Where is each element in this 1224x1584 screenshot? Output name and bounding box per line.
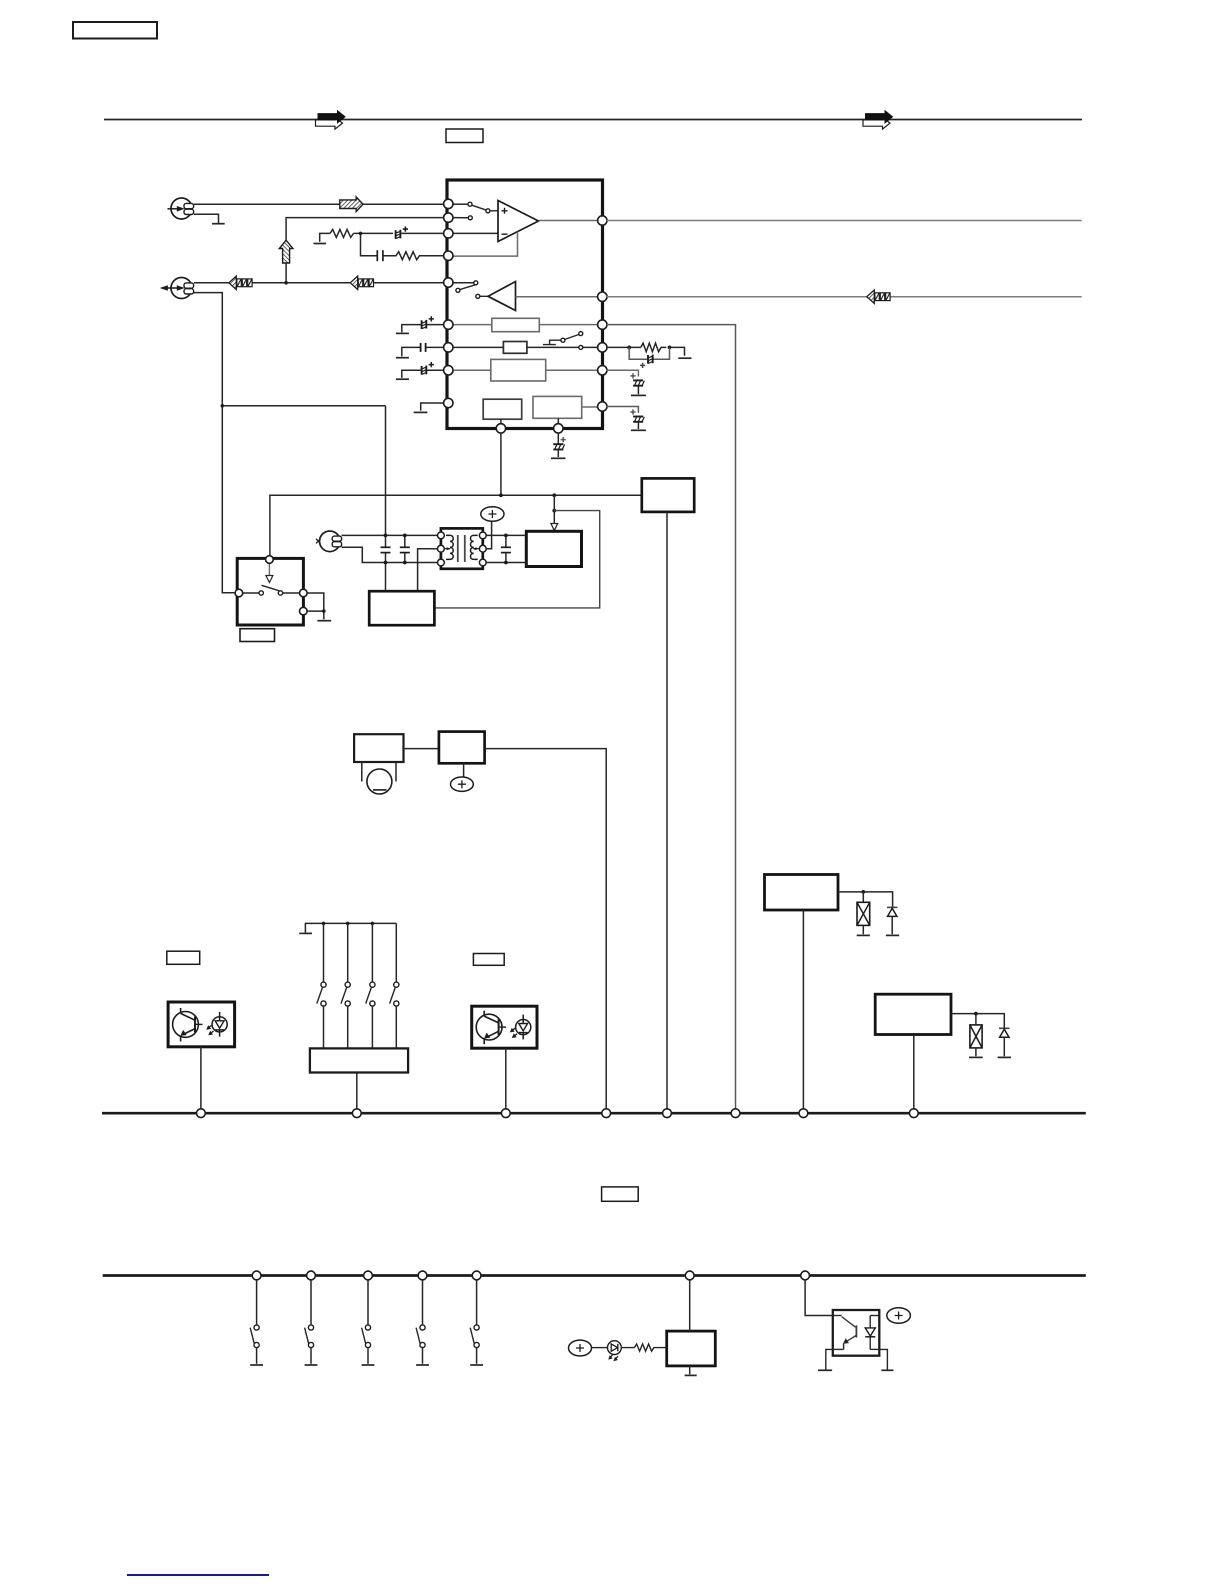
oscillator block OSC1 (369, 591, 434, 625)
wire branch to filter caps vertical (222, 405, 385, 407)
junction node SW1 ground (322, 609, 326, 613)
switch SW-b monitor select (452, 281, 488, 299)
connector J1 (168, 198, 194, 219)
title block box (73, 22, 157, 39)
wire supply rail horizontal (270, 495, 642, 557)
wire B5 to right pin (582, 406, 598, 408)
junction node RY1 (861, 890, 865, 894)
ground stub R-in (320, 233, 330, 241)
power switch box SW1 (237, 558, 303, 625)
wire bus2 to optocoupler (805, 1280, 833, 1316)
capacitor C9 smoothing (501, 535, 511, 562)
junction node rail at regulator (552, 493, 556, 497)
wire rail down to regulator arrow (553, 495, 555, 524)
optocoupler PC1 (833, 1310, 880, 1356)
wire pin row 403 to ground stub (421, 403, 448, 411)
wire line-out to right edge (607, 220, 1082, 222)
sense switch SS5 (470, 1280, 483, 1365)
IC pin circles bottom (496, 424, 563, 433)
capacitor C8 line filter (400, 535, 410, 562)
block filter F1 (492, 318, 540, 331)
wire transformer secondary top to PS1 (486, 534, 526, 536)
hatched flow arrow right on J1 line (340, 197, 363, 212)
junction nodes C7 (384, 534, 388, 565)
ground bar J1 (212, 223, 225, 225)
block B4 (483, 399, 522, 419)
ground bar RY3 (685, 1374, 697, 1376)
block B5 (533, 396, 582, 418)
junction node R3 right (668, 346, 672, 350)
key switch K2 (341, 923, 350, 1048)
capacitor C12 polarized pin 370 (396, 362, 444, 379)
wire RY1 down to bus (802, 910, 804, 1112)
wire plug neutral to transformer (342, 547, 439, 562)
capacitor C6 polarized to ground (551, 437, 566, 458)
ground bus 1 (102, 1112, 1086, 1115)
block AMP2 (439, 732, 485, 764)
ground bar keys (299, 932, 312, 934)
wire pin 347 to resistor net (607, 346, 641, 348)
surge absorber SA2 (969, 1014, 983, 1058)
wire J2 sleeve down long vertical (194, 293, 235, 593)
wire RY2 output (951, 1014, 1004, 1029)
arrow inside SW1 (266, 564, 273, 583)
node label oval plus LED (569, 1340, 592, 1356)
sense switch SS1 (250, 1280, 263, 1365)
wire pin 370 to C4 (607, 370, 639, 376)
switch SW-a input select (452, 202, 498, 213)
junction nodes keys (322, 922, 375, 926)
bus 1 node circles (197, 1109, 919, 1118)
wire FB1 down to bus (666, 512, 668, 1112)
wire bus2 to RY3 (689, 1280, 691, 1331)
wire J2 top line to IC pin5 (194, 282, 448, 284)
capacitor C11 pin 347 (396, 343, 444, 358)
capacitor C2 (377, 250, 383, 261)
wire pin row 370 right segment (546, 369, 600, 371)
sensor module Q2 box (472, 1006, 537, 1048)
wire pin 406 to C5 (607, 407, 639, 413)
wire C1 to IC pin3 (402, 232, 449, 234)
wire MIC-AMP to AMP2 (404, 748, 439, 750)
capacitor C7 line filter (381, 547, 391, 552)
junction nodes C8 (403, 534, 407, 565)
capacitor C3 polarized bypass (629, 347, 669, 368)
surge absorber SA1 (857, 892, 870, 936)
relay block RY3 (667, 1331, 716, 1366)
shielded-line marker S3 (867, 290, 890, 303)
wire B5 to bottom pin (557, 418, 559, 426)
wire pin row 324 right segment (539, 324, 600, 326)
wire pin row 347 right segment (527, 346, 600, 348)
op-amp U1a (498, 201, 539, 242)
relay block RY2 (875, 994, 951, 1034)
capacitor C4 polarized to ground (630, 373, 646, 395)
microphone MC1 (362, 762, 396, 794)
SW1 pin circles (235, 556, 307, 615)
ground bar R3 (678, 357, 691, 359)
ground bar opto left (818, 1369, 832, 1371)
wire RY2 down to bus (913, 1035, 915, 1113)
ground bus 2 (103, 1274, 1086, 1277)
junction node feedback branch (552, 509, 556, 513)
wire transformer mid tap to oscillator (418, 549, 439, 592)
wire pin row 324 left segment (452, 324, 492, 326)
connector J2 (160, 278, 194, 299)
wire bottom pin2 to C6 (557, 433, 559, 444)
block B2 (503, 342, 527, 354)
wire Q2 to bus (505, 1048, 507, 1112)
power supply block PS1 (526, 531, 581, 566)
junction node at branch to power chain (221, 404, 225, 408)
switch SW1 contacts (243, 585, 300, 595)
wire pin 324 to long vertical (607, 325, 736, 1112)
wire RY1 output (838, 892, 893, 908)
bus 2 node circles (252, 1271, 809, 1280)
wire op-amp output to pin (539, 220, 601, 222)
junction node row3 (359, 232, 363, 236)
sense switch SS2 (305, 1280, 318, 1365)
wire feedback branch to oscillator (434, 511, 599, 608)
ground bar SW1 (317, 620, 331, 622)
wire B4 to bottom pin (500, 419, 502, 426)
wire junction down to C2 (361, 233, 378, 255)
switch contact stub pin2 (452, 216, 472, 220)
wire bottom pin1 down to rail (500, 433, 502, 496)
wire J1 top to IC pin 1 (194, 203, 448, 205)
wire R1 to C1 (354, 232, 394, 234)
signal-flow block arrow A2 (863, 111, 893, 129)
key switch K4 (390, 923, 399, 1048)
label box left sensor (167, 951, 200, 964)
arrow into power supply (551, 524, 558, 531)
signal-flow block arrow A1 (316, 111, 346, 129)
wire IC pin2 left and down to junction (286, 218, 448, 283)
resistor R4 (621, 1344, 666, 1351)
shielded-line marker S1 (229, 276, 252, 289)
wire pin row 347 left segment (452, 346, 503, 348)
key switch K1 (317, 923, 326, 1048)
buffer U1b (488, 282, 516, 311)
resistor R1 (330, 229, 354, 237)
sensor module Q1 box (168, 1002, 235, 1047)
label box under rule (446, 129, 483, 143)
wire RY3 to ground (689, 1366, 691, 1374)
wire opto right ground (879, 1349, 887, 1369)
label box SW1 (240, 629, 275, 642)
junction node rail at IC pin (499, 493, 503, 497)
wire transformer secondary bottom to PS1 (486, 562, 526, 564)
wire inverting input (452, 232, 498, 234)
wire pin row 370 left segment (452, 369, 491, 371)
feed block FB1 (642, 478, 694, 512)
wire AMP2 output down to bus (485, 749, 607, 1112)
sense switch SS3 (362, 1280, 375, 1365)
diode D1 (886, 907, 899, 935)
capacitor C10 polarized pin 324 (396, 316, 444, 333)
relay block RY1 (765, 875, 839, 911)
LED LED1 (608, 1341, 622, 1362)
ground bar R-in (314, 243, 327, 245)
IC pin circles left (444, 199, 453, 407)
wire R3 right to ground (670, 347, 685, 355)
wire horizontal rule top (104, 119, 1082, 121)
wire opto left ground (826, 1349, 833, 1369)
block MIC-AMP (354, 734, 403, 762)
keypad block KB1 (310, 1048, 408, 1072)
wire buffer output to pin (516, 296, 601, 298)
label box right sensor (473, 954, 504, 966)
wire oval to LED1 (592, 1347, 608, 1349)
wire KB1 to bus (356, 1073, 358, 1113)
shielded-line marker S2 (350, 276, 373, 289)
resistor R2 (383, 252, 448, 260)
junction node RY2 (974, 1012, 978, 1016)
node label oval plus AMP2 (451, 777, 474, 791)
junction nodes C9 (504, 534, 508, 565)
hatched flow arrow up on vertical (279, 240, 293, 263)
ground bar opto right (881, 1369, 893, 1371)
wire feedback loop (452, 232, 518, 257)
IC pin circles right (598, 216, 607, 411)
capacitor C5 polarized to ground (630, 409, 646, 430)
switch SW-c mute with ground (543, 332, 583, 350)
node label oval plus (481, 507, 504, 522)
footer rule blue (127, 1574, 269, 1576)
wire Q1 to bus (200, 1047, 202, 1112)
wire monitor-out to right edge (607, 296, 1082, 298)
IC U1 body (447, 180, 603, 429)
label box bus2 (602, 1187, 639, 1201)
AC plug P1 (316, 531, 342, 552)
diode D2 (998, 1028, 1011, 1057)
capacitor C1 polarized (396, 227, 408, 239)
ground bar pin row 403 (414, 411, 428, 413)
wire J1 sleeve to ground (194, 214, 219, 223)
transformer pin circles (438, 532, 487, 566)
node label oval plus opto (887, 1308, 911, 1323)
junction node R3 left (627, 346, 631, 350)
key switch K3 (366, 923, 375, 1048)
wire AMP2 to supply oval (463, 763, 465, 777)
sense switch SS4 (416, 1280, 429, 1365)
wire branch vertical through caps to oscillator (385, 406, 387, 591)
transformer T1 (441, 528, 483, 568)
wire oval to transformer tap (486, 521, 491, 548)
wire SW1 right pins to ground (307, 593, 324, 619)
resistor R3 (641, 343, 667, 352)
block B3 (491, 359, 546, 381)
wire plug hot to transformer (342, 534, 439, 536)
junction node J2 line (284, 281, 288, 285)
wire keys common with ground (305, 923, 396, 933)
